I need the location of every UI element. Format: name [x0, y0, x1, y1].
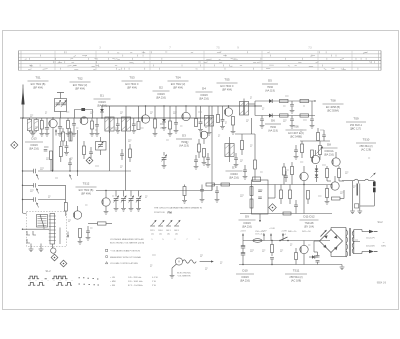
capacitor C6 — [96, 118, 98, 125]
filter box Z1 — [252, 180, 269, 214]
svg-text:FM: FM — [168, 210, 173, 214]
svg-text:THE CIRCUIT DIAGRAM HAS BEEN D: THE CIRCUIT DIAGRAM HAS BEEN DRAWN IN — [154, 207, 202, 210]
capacitor C36 electrolytic — [242, 241, 244, 247]
svg-text:D11-D12: D11-D12 — [303, 215, 315, 219]
svg-text:(BC 558A): (BC 558A) — [327, 109, 339, 113]
svg-text:C57 = 4.7: C57 = 4.7 — [255, 234, 265, 236]
capacitor C9 — [160, 123, 165, 125]
switch contact bracket 3 — [27, 239, 30, 243]
mains tap — [354, 241, 360, 243]
capacitor C22 — [68, 162, 72, 164]
capacitor C47 bead — [82, 108, 85, 110]
transistor TS7 — [300, 172, 308, 180]
wire bank feed — [23, 213, 27, 214]
wire TS5 emitter column — [211, 118, 213, 191]
transistor TS2 — [80, 117, 88, 125]
wire TS1 emitter — [52, 128, 54, 171]
ground bank S1 b — [40, 244, 42, 249]
ground L1 — [32, 131, 34, 134]
svg-text:VOLTMETER: VOLTMETER — [178, 276, 191, 278]
resistor R13 — [300, 114, 309, 117]
resistor R47 — [232, 117, 235, 126]
tuning capacitor C1 — [55, 99, 67, 112]
wire rail B — [102, 105, 262, 107]
switch position diagram row 1b — [52, 276, 68, 279]
wire detector branch 2 — [255, 115, 315, 117]
svg-text:ECI 7602 (B): ECI 7602 (B) — [31, 82, 46, 86]
svg-text:TS12: TS12 — [83, 182, 90, 186]
wire S2 down — [125, 131, 127, 191]
component value speckle — [30, 114, 33, 116]
ground R3 — [66, 133, 71, 135]
dots row — [79, 277, 80, 279]
svg-text:258 36A (2): 258 36A (2) — [359, 144, 372, 148]
svg-text:+ MW: + MW — [110, 281, 117, 283]
down arrow bank — [67, 232, 69, 238]
transistor TS14 — [200, 131, 208, 139]
svg-text:87.5 - 104 MHz: 87.5 - 104 MHz — [128, 285, 143, 287]
fuse F1 — [253, 239, 262, 243]
switch S4-1 — [280, 237, 288, 241]
resistor R27 — [326, 169, 329, 178]
resistor R46 — [69, 132, 72, 141]
ground C3 — [58, 133, 63, 135]
svg-text:(BF 494): (BF 494) — [33, 86, 43, 90]
svg-text:D8: D8 — [327, 143, 331, 147]
capacitor C13 — [291, 101, 293, 104]
capacitor C8 — [133, 118, 135, 124]
resistor R42 — [291, 167, 294, 175]
transformer L1 secondary — [34, 120, 38, 131]
loudspeaker LS1 — [373, 182, 376, 187]
capacitor C21 — [120, 153, 124, 155]
resistor R14 — [83, 146, 86, 155]
svg-text:TS5: TS5 — [224, 78, 230, 82]
table tick marks — [137, 55, 139, 57]
wire bank bus — [23, 228, 50, 230]
neutralising loop TS2 — [75, 110, 93, 119]
svg-text:S1-2: S1-2 — [45, 270, 51, 273]
svg-text:(AC 128): (AC 128) — [361, 148, 371, 152]
coil S3 — [208, 106, 210, 116]
resistor R44 — [64, 203, 67, 212]
supply arrow stage1 — [55, 130, 57, 136]
svg-text:(BA 216): (BA 216) — [240, 279, 250, 283]
switch position diagram row 2a — [28, 283, 44, 286]
resistor R11 — [300, 99, 309, 102]
svg-text:(BF 494): (BF 494) — [75, 87, 85, 91]
wire left bus vertical — [22, 118, 24, 213]
svg-text:145 - 285 kHz: 145 - 285 kHz — [128, 277, 141, 279]
svg-text:(BA 216): (BA 216) — [242, 225, 252, 229]
capacitor C32 — [294, 149, 298, 151]
wire bridge left — [314, 240, 320, 242]
svg-text:(BA 216): (BA 216) — [324, 153, 334, 157]
diode D10 symbol — [309, 256, 312, 258]
svg-text:~: ~ — [383, 240, 385, 244]
ground voltmeter — [170, 275, 175, 277]
transistor TS9 symbol — [332, 158, 340, 166]
svg-text:+6.8V: +6.8V — [281, 231, 287, 233]
wire af rail — [300, 140, 330, 142]
electronic voltmeter M6 — [175, 258, 182, 265]
resistor R20 — [203, 149, 206, 158]
resistor R45 — [62, 132, 65, 141]
capacitor C33 electrolytic — [356, 184, 358, 196]
svg-text:220-240V: 220-240V — [366, 245, 376, 247]
antenna A1 — [22, 85, 24, 119]
svg-text:VOLUME CONTROL AT MIN.: VOLUME CONTROL AT MIN. — [110, 262, 139, 265]
transistor TS3 — [141, 115, 149, 123]
svg-text:TS2: TS2 — [77, 77, 83, 81]
svg-text:TS4: TS4 — [175, 76, 181, 80]
capacitor C31 in box — [258, 189, 262, 191]
svg-text:(BF 494): (BF 494) — [173, 86, 183, 90]
wire supply rail + — [243, 240, 330, 242]
ground C2 — [45, 133, 50, 135]
resistor R28 — [338, 169, 341, 178]
supply arrow 3 — [270, 234, 272, 241]
svg-text:7N60: 7N60 — [267, 85, 274, 89]
alignment table — [19, 50, 382, 52]
svg-text:ECI 7602 (2): ECI 7602 (2) — [171, 82, 186, 86]
resistor R41 — [283, 167, 286, 175]
wire feedback lower — [303, 185, 305, 214]
resistor R9 — [217, 106, 219, 115]
switch position diagram row 2b — [56, 283, 72, 286]
wire rail D — [211, 185, 213, 191]
transistor TS4 — [182, 112, 190, 120]
svg-text:C0026: C0026 — [30, 143, 38, 147]
svg-text:ELECTRONIC: ELECTRONIC — [177, 272, 191, 274]
bridge diode c — [323, 245, 326, 248]
capacitor C46 — [65, 145, 69, 147]
capacitor C40 — [200, 189, 204, 191]
capacitor C45 series — [33, 197, 35, 201]
preset trimmer arrow 4 — [176, 220, 181, 226]
svg-text:TS9: TS9 — [353, 117, 359, 121]
svg-text:(BF 494): (BF 494) — [81, 192, 91, 196]
svg-text:ELECTRONIC VOLTMETER (20 M): ELECTRONIC VOLTMETER (20 M) — [110, 243, 144, 245]
resistor R25 — [301, 141, 303, 144]
capacitor C11 — [200, 106, 202, 122]
resistor R23 in box — [250, 187, 253, 196]
switch position diagram row 1a — [28, 276, 39, 279]
node osc rail — [52, 170, 53, 171]
capacitor C44 — [322, 134, 326, 136]
capacitor C2 — [46, 118, 48, 128]
svg-text:(AA 119): (AA 119) — [179, 144, 189, 148]
svg-text:(AC 127): (AC 127) — [351, 127, 361, 131]
switch wiper arrow 2 — [37, 188, 39, 193]
svg-text:+ FM: + FM — [110, 285, 115, 287]
IF transformer S2 — [125, 106, 127, 117]
capacitor C29 — [234, 157, 238, 159]
capacitor C18 series — [33, 183, 35, 187]
capacitor C3 — [59, 118, 61, 127]
svg-text:+2.4V: +2.4V — [269, 228, 275, 230]
wire stage1 verticals — [77, 130, 79, 176]
resistor R29 — [326, 189, 329, 198]
svg-text:C0001A: C0001A — [324, 149, 334, 153]
wire band line 3 — [23, 199, 34, 201]
wire mid vertical 1 — [235, 133, 255, 135]
voltmeter coil — [183, 260, 197, 263]
switch position diagram row 1a tick — [45, 278, 47, 280]
capacitor C17 series — [33, 169, 35, 173]
diode D5 symbol — [269, 99, 272, 103]
ground supply — [341, 265, 343, 267]
resistor R30 — [332, 197, 341, 200]
diamond test point M4 — [60, 260, 67, 267]
capacitor C37 electrolytic — [241, 252, 245, 254]
transistor TS1 — [49, 119, 57, 127]
oscillator coil L2 — [37, 215, 48, 228]
wire box to rail — [268, 197, 275, 199]
trimmer bank C25 — [130, 191, 132, 197]
mains pin 1 — [369, 230, 374, 234]
component X1 — [355, 204, 359, 208]
resistor R37 — [295, 253, 298, 260]
svg-text:ECI 7602 C: ECI 7602 C — [220, 84, 233, 88]
transistor TS13 — [73, 211, 81, 219]
diamond test point M3 — [51, 254, 58, 261]
node rail A left — [22, 117, 23, 118]
svg-text:D2: D2 — [159, 86, 163, 90]
bridge rectifier GR1 — [320, 230, 343, 253]
svg-text:(BF 494): (BF 494) — [127, 86, 137, 90]
svg-text:0.1 W: 0.1 W — [152, 277, 159, 279]
IF transformer S4 — [243, 100, 245, 102]
notes glyph column — [106, 249, 108, 251]
capacitor C34 — [294, 204, 298, 206]
svg-text:D4: D4 — [202, 87, 206, 91]
svg-text:50Hz: 50Hz — [381, 246, 386, 248]
svg-text:C0026: C0026 — [98, 100, 106, 104]
resistor R2 — [50, 151, 53, 160]
resistor R36 — [271, 241, 273, 245]
svg-text:TS3: TS3 — [129, 76, 135, 80]
svg-text:TS6: TS6 — [293, 125, 299, 129]
ground audio a — [352, 181, 354, 201]
wire S4 to detector — [249, 103, 255, 105]
capacitor C35 — [284, 175, 288, 177]
wire speaker return — [373, 193, 375, 207]
waveform tick labels — [29, 279, 31, 282]
resistor R15 — [129, 149, 132, 158]
wire output node — [339, 180, 344, 182]
svg-text:C0026: C0026 — [200, 93, 208, 97]
wire main rail A — [20, 117, 212, 119]
trimmer C42 — [162, 157, 167, 159]
capacitor C38 — [270, 257, 274, 259]
capacitor C30 — [243, 169, 247, 171]
ground audio b — [359, 196, 361, 211]
svg-text:ECI 7602 (2): ECI 7602 (2) — [73, 83, 88, 87]
wire S1 down — [109, 131, 111, 133]
transformer L1 primary — [27, 120, 31, 131]
diamond test point M2 — [86, 157, 93, 164]
resistor R17 — [98, 222, 107, 225]
svg-text:(BA 216): (BA 216) — [29, 147, 39, 151]
capacitor C20 — [89, 151, 93, 153]
svg-text:C56 = 2.5: C56 = 2.5 — [255, 231, 265, 233]
pilot lamp LA1 — [51, 244, 53, 248]
capacitor C28 — [194, 159, 198, 161]
wire mains upper — [354, 229, 362, 231]
diode D12 symbol — [315, 175, 318, 178]
wire L1 top — [29, 118, 31, 120]
svg-text:110-127V: 110-127V — [366, 237, 375, 239]
resistor R33 — [289, 190, 292, 199]
svg-text:VOLTAGES MEASURED WITH AN: VOLTAGES MEASURED WITH AN — [110, 238, 144, 241]
svg-text:C0026: C0026 — [241, 275, 249, 279]
wire osc rail C — [23, 170, 34, 172]
svg-text:TS8: TS8 — [330, 99, 336, 103]
svg-text:520 - 1605 kHz: 520 - 1605 kHz — [128, 281, 143, 283]
svg-text:R40 = 1k: R40 = 1k — [288, 231, 297, 233]
wire detector branch 1 — [255, 100, 315, 102]
svg-text:258 50A (2): 258 50A (2) — [289, 275, 302, 279]
tapped coil L3 — [50, 214, 55, 245]
switch wiper arrow 1b — [70, 175, 72, 180]
svg-text:(BY 164): (BY 164) — [304, 225, 314, 229]
svg-text:D3: D3 — [182, 134, 186, 138]
supply arrow 4 — [282, 234, 284, 241]
bridge diode d — [334, 247, 337, 250]
trimmer bank C24 — [123, 191, 125, 197]
supply arrow 2 — [263, 234, 265, 241]
svg-text:(BA 216): (BA 216) — [156, 96, 166, 100]
switch wiper arrow 1 — [37, 174, 39, 180]
resistor R24 in box — [250, 199, 253, 208]
bridge diode b — [334, 235, 337, 238]
svg-text:D13: D13 — [31, 137, 37, 141]
capacitor C16 — [311, 101, 313, 119]
capacitor C15 — [291, 116, 293, 119]
transistor TS5 — [224, 108, 232, 116]
svg-text:D6: D6 — [271, 119, 275, 123]
svg-text:ECI 7602 C: ECI 7602 C — [125, 82, 138, 86]
table column separators — [54, 51, 56, 71]
resistor R5 — [138, 106, 140, 122]
capacitor C27 — [86, 230, 90, 232]
transistor TS12 — [102, 198, 110, 206]
svg-text:TS10: TS10 — [363, 138, 370, 142]
capacitor C7 — [117, 118, 119, 124]
mains pin 2 — [369, 250, 374, 254]
capacitor C43 — [206, 157, 210, 159]
resistor R12 — [280, 114, 289, 117]
diode D6 symbol — [269, 114, 272, 118]
transistor TS11 symbol — [300, 245, 308, 253]
resistor R32 — [280, 190, 283, 199]
variable capacitor C19 — [96, 142, 107, 151]
ground R4 — [90, 133, 95, 135]
resistor R21 — [241, 141, 244, 150]
wire coupling to speaker — [342, 180, 354, 182]
wire osc feedback — [52, 160, 54, 171]
wire voltmeter right — [200, 261, 211, 263]
resistor R22 — [254, 160, 257, 169]
svg-text:(2): (2) — [159, 233, 162, 235]
resistor R34 — [307, 191, 310, 200]
resistor R35 — [311, 150, 314, 158]
svg-text:C0026: C0026 — [157, 92, 165, 96]
svg-text:EC 4058 (B): EC 4058 (B) — [326, 105, 340, 109]
svg-text:TS1: TS1 — [35, 76, 41, 80]
switch wiper arrow 3 — [37, 203, 39, 208]
capacitor C5 — [73, 118, 75, 124]
resistor R19 — [198, 144, 201, 152]
svg-text:D9: D9 — [245, 215, 249, 219]
svg-text:(AA 119): (AA 119) — [265, 89, 275, 93]
wire bridge bottom — [330, 253, 332, 257]
wire TS12 emitter — [105, 206, 107, 211]
svg-text:7N4148: 7N4148 — [305, 221, 315, 225]
wire band line 2 — [23, 184, 34, 186]
diode D2 symbol — [163, 106, 165, 119]
resistor R7 — [169, 106, 171, 121]
wire voltmeter ground — [172, 264, 177, 268]
capacitor C14 — [261, 116, 263, 119]
arrow at bridge — [321, 230, 327, 237]
bridge diode a — [324, 235, 327, 238]
transistor TS8 symbol — [311, 155, 319, 163]
switch bank S1 outline — [27, 212, 67, 247]
IF transformer S5 — [225, 144, 229, 157]
resistor R39 — [221, 183, 230, 186]
svg-text:(BA 216): (BA 216) — [199, 97, 209, 101]
svg-text:(BA 216): (BA 216) — [97, 104, 107, 108]
svg-text:V: V — [178, 260, 180, 264]
preset trimmer arrow 3 — [168, 220, 173, 226]
svg-text:D5: D5 — [268, 79, 272, 83]
wire bank right drops — [59, 228, 61, 245]
switch contact bracket 1 — [27, 231, 30, 235]
svg-text:S4-2: S4-2 — [377, 221, 383, 224]
svg-text:* VOLTAGES IN AM POSITION: * VOLTAGES IN AM POSITION — [110, 250, 140, 253]
capacitor C12 — [222, 106, 224, 120]
svg-text:250 36/2-1: 250 36/2-1 — [350, 123, 363, 127]
svg-text:(BC 548B): (BC 548B) — [290, 135, 302, 139]
diode D1 wire — [101, 106, 103, 109]
node detector out — [314, 100, 315, 101]
resistor R10 — [280, 99, 289, 102]
svg-text:(3): (3) — [167, 233, 170, 235]
svg-text:(BA 216): (BA 216) — [229, 176, 239, 180]
supply arrow 1 — [242, 234, 244, 241]
trimmer bank C23 — [115, 191, 117, 197]
trimmer bank C26 — [138, 191, 140, 197]
resistor R6 — [154, 106, 156, 119]
capacitor C41 — [215, 190, 219, 192]
svg-text:(AC 188): (AC 188) — [291, 279, 301, 283]
transistor TS10 symbol — [331, 182, 339, 190]
svg-text:MEASURED WITHOUT SIGNAL: MEASURED WITHOUT SIGNAL — [110, 256, 142, 259]
arrow to speaker — [371, 173, 376, 178]
diamond test point M1 — [11, 141, 18, 148]
resistor R8 — [195, 106, 197, 119]
svg-text:C0040: C0040 — [230, 172, 238, 176]
capacitor C4 — [44, 146, 49, 148]
svg-text:TS11: TS11 — [293, 269, 300, 273]
svg-text:D1: D1 — [100, 94, 104, 98]
resistor R43 — [317, 133, 320, 141]
capacitor C10 — [175, 106, 177, 123]
svg-text:D10: D10 — [242, 269, 248, 273]
diode D11 symbol — [315, 169, 318, 172]
